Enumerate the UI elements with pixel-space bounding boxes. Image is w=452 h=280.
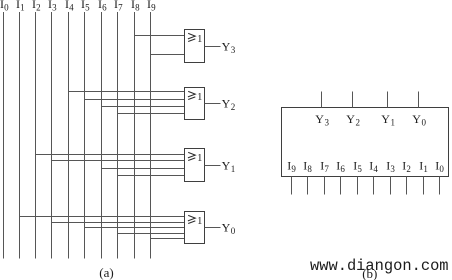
wire input line I5 vertical <box>84 12 86 259</box>
wire I1 to gate Y0 <box>20 216 185 218</box>
svg-text:Y: Y <box>346 112 355 126</box>
node pin label I0 <box>435 159 444 175</box>
wire I4 to gate Y2 <box>69 91 185 93</box>
node pin label I7 <box>320 159 329 175</box>
wire I6 to gate Y1 <box>102 168 185 170</box>
node pin label I3 <box>386 159 395 175</box>
wire input line I1 vertical <box>19 12 21 259</box>
wire pin Y3 top <box>321 92 323 108</box>
svg-text:3: 3 <box>52 3 57 13</box>
svg-text:5: 5 <box>85 3 90 13</box>
svg-text:2: 2 <box>406 164 411 174</box>
svg-text:3: 3 <box>325 118 330 128</box>
svg-text:Y: Y <box>412 112 421 126</box>
svg-text:Y: Y <box>315 112 324 126</box>
node pin label I1 <box>419 159 428 175</box>
wire I9 to gate Y3 <box>151 54 185 56</box>
svg-text:6: 6 <box>102 3 107 13</box>
svg-text:2: 2 <box>36 3 41 13</box>
wire I3 to gate Y0 <box>52 222 185 224</box>
wire input line I4 vertical <box>68 12 70 259</box>
wire input line I9 vertical <box>150 12 152 259</box>
wire pin I6 bottom <box>340 177 342 195</box>
svg-text:0: 0 <box>422 118 427 128</box>
wire pin Y2 top <box>352 92 354 108</box>
or-gate Y3 (IEC >=1) <box>185 30 205 63</box>
wire input line I3 vertical <box>51 12 53 259</box>
wire pin I7 bottom <box>324 177 326 195</box>
wire pin I3 bottom <box>390 177 392 195</box>
node pin label Y2 <box>346 112 360 128</box>
wire pin I0 bottom <box>439 177 441 195</box>
node pin label I2 <box>402 159 411 175</box>
svg-text:9: 9 <box>291 164 296 174</box>
wire input line I6 vertical <box>101 12 103 259</box>
node pin label I9 <box>287 159 296 175</box>
svg-text:1: 1 <box>197 153 202 164</box>
svg-text:1: 1 <box>391 118 396 128</box>
wire pin I2 bottom <box>406 177 408 195</box>
wire I8 to gate Y3 <box>135 35 185 37</box>
svg-text:0: 0 <box>231 226 236 236</box>
svg-text:2: 2 <box>356 118 361 128</box>
wire I9 to gate Y0 <box>151 238 185 240</box>
wire pin I9 bottom <box>291 177 293 195</box>
node pin label I5 <box>353 159 362 175</box>
node pin label Y1 <box>381 112 395 128</box>
svg-text:8: 8 <box>135 3 140 13</box>
svg-text:8: 8 <box>307 164 312 174</box>
svg-text:1: 1 <box>197 34 202 45</box>
node output label Y3 <box>222 39 236 55</box>
svg-text:4: 4 <box>69 3 74 13</box>
svg-text:Y: Y <box>222 96 231 110</box>
svg-text:3: 3 <box>231 45 236 55</box>
node pin label Y3 <box>315 112 329 128</box>
wire I6 to gate Y2 <box>102 106 185 108</box>
wire I5 to gate Y2 <box>85 99 185 101</box>
svg-text:7: 7 <box>324 164 329 174</box>
svg-text:4: 4 <box>373 164 378 174</box>
svg-text:7: 7 <box>118 3 123 13</box>
svg-text:Y: Y <box>222 158 231 172</box>
svg-text:Y: Y <box>222 39 231 53</box>
or-gate Y0 (IEC >=1) <box>185 212 205 244</box>
svg-text:0: 0 <box>4 3 9 13</box>
svg-text:1: 1 <box>197 92 202 103</box>
wire pin Y1 top <box>387 92 389 108</box>
wire I7 to gate Y1 <box>118 175 185 177</box>
encoder block U1 (b) <box>282 108 449 177</box>
wire I2 to gate Y1 <box>36 154 185 156</box>
node output label Y1 <box>222 158 236 174</box>
node pin label Y0 <box>412 112 426 128</box>
wire pin I1 bottom <box>423 177 425 195</box>
wire pin Y0 top <box>418 92 420 108</box>
wire input line I0 vertical <box>3 12 5 259</box>
svg-text:1: 1 <box>20 3 25 13</box>
svg-text:3: 3 <box>390 164 395 174</box>
svg-text:1: 1 <box>197 216 202 227</box>
wire output Y2 <box>205 103 221 105</box>
or-gate Y2 (IEC >=1) <box>185 88 205 120</box>
wire input line I7 vertical <box>117 12 119 259</box>
wire input line I8 vertical <box>134 12 136 259</box>
svg-text:Y: Y <box>222 220 231 234</box>
wire I5 to gate Y0 <box>85 227 185 229</box>
svg-text:6: 6 <box>340 164 345 174</box>
wire output Y1 <box>205 165 221 167</box>
svg-text:1: 1 <box>231 164 236 174</box>
svg-text:Y: Y <box>381 112 390 126</box>
wire pin I4 bottom <box>373 177 375 195</box>
wire I7 to gate Y2 <box>118 113 185 115</box>
wire output Y3 <box>205 46 221 48</box>
svg-text:(a): (a) <box>99 265 113 280</box>
node pin label I6 <box>336 159 345 175</box>
node pin label I8 <box>303 159 312 175</box>
svg-text:www.diangon.com: www.diangon.com <box>310 257 449 275</box>
node output label Y0 <box>222 220 236 236</box>
wire input line I2 vertical <box>35 12 37 259</box>
svg-text:1: 1 <box>423 164 428 174</box>
svg-text:2: 2 <box>231 102 236 112</box>
wire I3 to gate Y1 <box>52 160 185 162</box>
wire pin I8 bottom <box>307 177 309 195</box>
svg-text:0: 0 <box>439 164 444 174</box>
wire output Y0 <box>205 227 221 229</box>
svg-text:5: 5 <box>357 164 362 174</box>
svg-text:9: 9 <box>151 3 156 13</box>
wire pin I5 bottom <box>357 177 359 195</box>
node output label Y2 <box>222 96 236 112</box>
wire I7 to gate Y0 <box>118 233 185 235</box>
node pin label I4 <box>369 159 378 175</box>
or-gate Y1 (IEC >=1) <box>185 149 205 182</box>
